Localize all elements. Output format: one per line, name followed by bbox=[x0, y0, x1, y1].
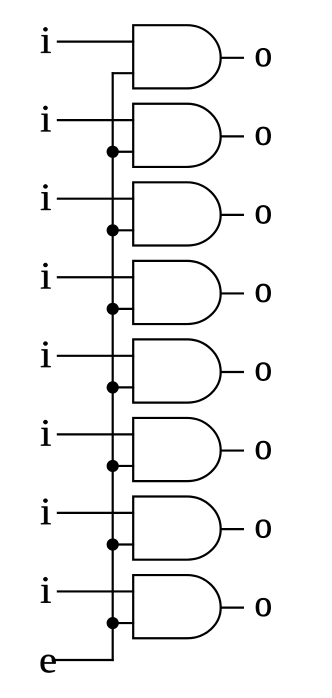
AND gate U4 bbox=[133, 261, 221, 324]
wire: enable tap to AND gate 7 lower input bbox=[113, 543, 135, 545]
input label i (gate 5) bbox=[41, 341, 51, 367]
AND gate U7 bbox=[133, 497, 221, 560]
input label i (gate 8) bbox=[41, 577, 51, 603]
input label i (gate 2) bbox=[41, 106, 51, 132]
wire: input i5 to AND gate 5 upper input bbox=[57, 355, 134, 357]
wire: AND gate 3 output to o bbox=[220, 214, 244, 216]
wire: enable tap to AND gate 4 lower input bbox=[113, 308, 135, 310]
wire: enable tap to AND gate 8 lower input bbox=[113, 622, 135, 624]
output label o (gate 1) bbox=[256, 48, 271, 66]
junction dot: enable bus tap for gate 5 bbox=[107, 381, 119, 393]
wire: input i7 to AND gate 7 upper input bbox=[57, 512, 134, 514]
wire: AND gate 4 output to o bbox=[220, 292, 244, 294]
AND gate U6 bbox=[133, 418, 221, 481]
input label i (gate 4) bbox=[41, 263, 51, 289]
enable input label e bbox=[41, 655, 56, 673]
wire: input i3 to AND gate 3 upper input bbox=[57, 198, 134, 200]
input label i (gate 1) bbox=[41, 27, 51, 53]
output label o (gate 7) bbox=[256, 520, 271, 538]
wire: AND gate 7 output to o bbox=[220, 528, 244, 530]
junction dot: enable bus tap for gate 8 bbox=[107, 617, 119, 629]
output label o (gate 3) bbox=[256, 205, 271, 223]
wire: enable e horizontal segment bbox=[52, 659, 114, 661]
AND gate U5 bbox=[133, 339, 221, 402]
wire: enable tap to AND gate 3 lower input bbox=[113, 229, 135, 231]
junction dot: enable bus tap for gate 6 bbox=[107, 460, 119, 472]
wire: input i6 to AND gate 6 upper input bbox=[57, 433, 134, 435]
wire: enable tap to AND gate 6 lower input bbox=[113, 465, 135, 467]
wire: input i4 to AND gate 4 upper input bbox=[57, 276, 134, 278]
wire: enable riser corner to AND gate 1 lower input bbox=[112, 72, 135, 74]
input label i (gate 3) bbox=[41, 184, 51, 210]
AND gate U1 bbox=[133, 25, 221, 88]
AND gate U2 bbox=[133, 104, 221, 167]
input label i (gate 6) bbox=[41, 420, 51, 446]
wire: input i2 to AND gate 2 upper input bbox=[57, 119, 134, 121]
wire: input i8 to AND gate 8 upper input bbox=[57, 590, 134, 592]
wire: input i1 to AND gate 1 upper input bbox=[57, 40, 134, 42]
AND gate U8 bbox=[133, 575, 221, 638]
wire: AND gate 2 output to o bbox=[220, 135, 244, 137]
wire: AND gate 1 output to o bbox=[220, 57, 244, 59]
junction dot: enable bus tap for gate 3 bbox=[107, 224, 119, 236]
output label o (gate 2) bbox=[256, 127, 271, 145]
wire: enable bus vertical riser bbox=[112, 72, 114, 661]
junction dot: enable bus tap for gate 7 bbox=[107, 538, 119, 550]
output label o (gate 4) bbox=[256, 284, 271, 302]
wire: AND gate 5 output to o bbox=[220, 371, 244, 373]
wire: enable tap to AND gate 5 lower input bbox=[113, 386, 135, 388]
output label o (gate 6) bbox=[256, 441, 271, 459]
wire: AND gate 6 output to o bbox=[220, 449, 244, 451]
output label o (gate 8) bbox=[256, 598, 271, 616]
wire: AND gate 8 output to o bbox=[220, 607, 244, 609]
AND gate U3 bbox=[133, 182, 221, 245]
output label o (gate 5) bbox=[256, 362, 271, 380]
wire: enable tap to AND gate 2 lower input bbox=[113, 151, 135, 153]
junction dot: enable bus tap for gate 2 bbox=[107, 146, 119, 158]
junction dot: enable bus tap for gate 4 bbox=[107, 303, 119, 315]
input label i (gate 7) bbox=[41, 499, 51, 525]
